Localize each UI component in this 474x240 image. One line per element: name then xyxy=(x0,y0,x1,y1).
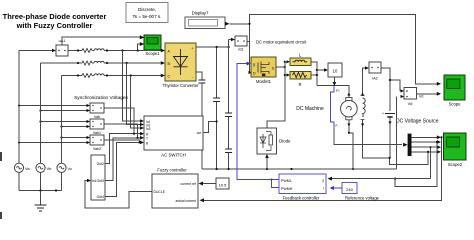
voltage measurement Vd xyxy=(389,79,424,169)
fuzzy controller block xyxy=(152,168,198,209)
wire DC bus down with Id1 feed xyxy=(228,40,230,114)
svg-text:Display7: Display7 xyxy=(192,11,209,16)
left screen edge artifacts xyxy=(0,152,2,161)
feedback controller block (blue) xyxy=(279,174,326,201)
scope Scope2 xyxy=(444,133,467,167)
wire iA2 output to battery top xyxy=(381,68,390,111)
current measurement Id1 xyxy=(235,36,247,52)
wire loop A (to scope2 line 4) xyxy=(389,151,430,165)
subsystem AC SWITCH xyxy=(144,116,203,158)
wire taps to Vab1 xyxy=(39,120,90,128)
mosfet Mosfet1 xyxy=(251,57,276,84)
constant 10.5 xyxy=(199,178,230,189)
svg-text:Thyristor Converter: Thyristor Converter xyxy=(163,83,199,88)
svg-text:10.5: 10.5 xyxy=(219,183,228,188)
dc machine armature (motor symbol) xyxy=(341,98,358,120)
svg-text:F-: F- xyxy=(336,124,339,128)
RL branch row 3 (phase C) xyxy=(62,74,166,78)
svg-text:D: D xyxy=(253,72,256,76)
svg-text:Out3: Out3 xyxy=(97,179,104,183)
title text xyxy=(3,12,107,30)
wires Vab outputs to AC switch R,Y,B xyxy=(104,108,144,144)
svg-text:Vb: Vb xyxy=(47,166,53,171)
wire Out3 up to AC switch bundle xyxy=(105,137,139,181)
svg-text:Scope: Scope xyxy=(449,102,462,107)
wire armature bottom U loop xyxy=(389,158,391,165)
ac source Vc xyxy=(57,76,72,191)
svg-text:actual current: actual current xyxy=(175,199,196,203)
inductance block L xyxy=(290,53,311,66)
svg-text:Out2: Out2 xyxy=(97,162,104,166)
svg-text:Vd: Vd xyxy=(419,95,423,99)
ground xyxy=(35,191,47,212)
display Display7 xyxy=(185,11,230,29)
svg-text:with Fuzzy Controller: with Fuzzy Controller xyxy=(16,21,93,30)
svg-text:Vab2: Vab2 xyxy=(93,147,101,151)
svg-text:Synchronization Voltages: Synchronization Voltages xyxy=(74,95,128,101)
voltage measurement Vab1 xyxy=(90,119,104,135)
resistance block R xyxy=(290,72,311,87)
voltage measurement Vab2 xyxy=(90,135,104,151)
svg-text:Out4: Out4 xyxy=(97,195,104,199)
wire Out4 up to AC switch bundle xyxy=(105,141,141,196)
wire field top to iA2 input xyxy=(363,68,366,96)
svg-text:DC Voltage Source: DC Voltage Source xyxy=(396,119,439,125)
svg-text:Id1: Id1 xyxy=(238,48,243,52)
svg-text:+: + xyxy=(382,112,384,116)
capacitor C3 xyxy=(225,113,232,149)
svg-text:In3: In3 xyxy=(146,127,151,131)
svg-text:+: + xyxy=(191,47,193,51)
diode block (freewheeling) xyxy=(257,128,291,154)
svg-text:Va: Va xyxy=(25,166,30,171)
node DC+ rail from thyristor + output xyxy=(196,46,229,48)
svg-text:Fuzzy controller: Fuzzy controller xyxy=(157,168,187,173)
gain block 10 xyxy=(328,63,342,86)
wire taps from source columns to Vab xyxy=(18,104,90,112)
svg-text:Feedback controller: Feedback controller xyxy=(283,196,320,201)
svg-text:F+: F+ xyxy=(336,89,340,93)
svg-text:Discrete,: Discrete, xyxy=(138,7,156,12)
capacitor C4 xyxy=(225,149,232,169)
wire uA1 current output to Scope1 in1 xyxy=(62,37,140,45)
powergui Discrete block xyxy=(126,3,168,23)
wire PWM gate drive (blue) xyxy=(237,62,279,188)
return trunk rail xyxy=(202,168,397,170)
DC machine field terminals F+/F- (blue) xyxy=(331,86,340,128)
svg-text:g: g xyxy=(253,63,255,67)
svg-text:Scope1: Scope1 xyxy=(145,51,160,56)
svg-text:240: 240 xyxy=(346,187,353,192)
svg-text:Three-phase Diode converter: Three-phase Diode converter xyxy=(3,12,107,21)
RL branch row 1 (phase A) xyxy=(68,49,165,53)
three phase vertical buses to AC switch xyxy=(123,51,145,130)
svg-text:DC motor equivalent circuit: DC motor equivalent circuit xyxy=(256,40,307,45)
RL branch row 2 (phase B) xyxy=(41,61,166,65)
wire Display7 input xyxy=(230,23,250,25)
svg-text:Scope2: Scope2 xyxy=(448,162,463,167)
current measurement uA1 xyxy=(56,39,68,56)
svg-text:R: R xyxy=(298,82,301,87)
wire Vd output to Scope in2 and feedback y xyxy=(417,82,442,179)
wire row1 tap to Scope1 in2 xyxy=(138,44,140,51)
scope Scope1 xyxy=(140,35,161,56)
svg-text:Reference voltage: Reference voltage xyxy=(345,196,380,201)
wire feedback y input xyxy=(328,177,431,181)
svg-text:C: C xyxy=(168,75,171,79)
wire loop C (feedback y to scope2 line 2) xyxy=(394,141,438,187)
thyristor converter U1 xyxy=(163,43,199,88)
svg-text:B: B xyxy=(146,141,148,145)
capacitor C2 xyxy=(213,46,220,170)
current measurement iA2 xyxy=(369,62,381,81)
svg-text:AC SWITCH: AC SWITCH xyxy=(161,153,186,158)
svg-text:Mosfet1: Mosfet1 xyxy=(256,79,272,84)
wire armature minus down xyxy=(348,120,354,170)
wire Out2 up to AC switch bundle xyxy=(105,133,135,164)
svg-text:Diode: Diode xyxy=(279,139,291,144)
field winding coil xyxy=(361,96,366,120)
subsystem pulse generator xyxy=(91,155,105,200)
wire neutral bus xyxy=(19,189,62,191)
wire uA1 input from Va column xyxy=(19,50,53,52)
svg-text:10: 10 xyxy=(333,69,338,74)
ac source Va xyxy=(14,51,30,191)
svg-text:current ref: current ref xyxy=(181,182,197,186)
port marks on DC machine terminals xyxy=(347,93,391,127)
wire actual current long feedback (to fuzzy controller) xyxy=(200,136,443,202)
wire Id1 input xyxy=(229,39,232,41)
wire thyristor - output xyxy=(196,72,202,80)
svg-text:PWML: PWML xyxy=(281,179,292,183)
wire mosfet source node xyxy=(267,60,290,128)
svg-text:Vc: Vc xyxy=(68,166,73,171)
svg-text:Vab: Vab xyxy=(94,115,100,119)
dc voltage source battery xyxy=(363,112,395,158)
ac source Vb xyxy=(36,63,52,191)
wire taps to Vab2 xyxy=(18,136,90,144)
svg-text:y: y xyxy=(322,178,324,182)
wire AC switch out vertical xyxy=(203,122,217,133)
wire trunk to diode bottom xyxy=(265,154,269,169)
svg-text:Vab1: Vab1 xyxy=(93,131,101,135)
capacitor C1 xyxy=(199,80,206,169)
wire field minus to mux xyxy=(334,128,402,145)
wires mux to Scope2 (4 signals) xyxy=(412,135,442,153)
mux feeding Scope2 xyxy=(403,134,411,156)
wire Id1 output to top rail and mosfet drain xyxy=(247,15,438,84)
svg-text:DUCLE: DUCLE xyxy=(154,190,166,194)
wire L/R outputs to armature node xyxy=(311,62,349,98)
svg-text:Vd: Vd xyxy=(408,102,413,106)
constant 240 (blue) xyxy=(330,183,380,201)
svg-text:Ts = 5e-007 s.: Ts = 5e-007 s. xyxy=(133,14,162,19)
svg-text:iA2: iA2 xyxy=(372,77,378,81)
svg-text:out: out xyxy=(197,131,202,135)
wire fuzzy DUCLE output to subsystem In1 xyxy=(85,179,152,208)
voltage measurement Vab xyxy=(90,103,104,119)
svg-text:DC Machine: DC Machine xyxy=(296,106,324,112)
svg-text:PWMH: PWMH xyxy=(281,187,293,191)
scope Scope xyxy=(444,75,465,107)
